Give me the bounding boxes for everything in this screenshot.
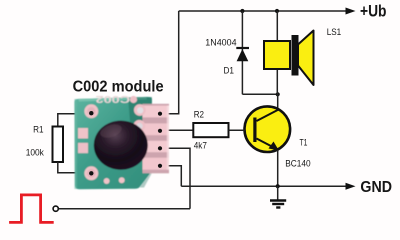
svg-text:R1: R1 [33,124,43,134]
small square pad 2 [78,143,88,153]
svg-text:1N4004: 1N4004 [205,38,236,48]
mounting hole pad bottom-left [84,166,98,180]
node dot speaker top on rail [275,9,279,13]
small round pads bottom [104,178,110,184]
solder dot left top [89,111,93,115]
module board [74,97,152,189]
dark area near vias top-right [128,97,152,135]
wire diode branch vertical [241,11,243,94]
svg-text:100k: 100k [26,148,45,158]
chip blob [94,121,148,170]
resistor R1 wire bottom [58,162,91,173]
small square pad 1 [78,128,88,139]
solder dot pad4 [158,164,162,168]
wire GND rail [181,185,346,187]
resistor R2 [193,123,228,137]
via pad top edge [130,96,137,103]
svg-text:LS1: LS1 [327,27,342,37]
solder dot pad2 [158,129,162,133]
transistor T1 [244,106,290,152]
wire riser from module pad1 to +Ub rail [160,11,179,114]
GND arrowhead [346,183,356,190]
wire module pad4 to GND rail [160,166,181,186]
svg-text:R2: R2 [194,110,204,120]
svg-text:GND: GND [360,179,392,196]
svg-text:D1: D1 [224,66,235,76]
pin pad strip fingers (right edge) [143,104,170,174]
svg-text:+Ub: +Ub [360,2,387,20]
wire diode bottom horizontal to collector node [242,93,277,95]
wire R2 to base [229,129,245,131]
resistor R1 wire top [58,114,91,127]
svg-text:4k7: 4k7 [194,140,207,150]
input terminal open circle [53,206,58,211]
solder dot pad1 [158,112,162,116]
pulse waveform (input signal) [9,195,54,223]
node dot collector junction [276,92,280,96]
diode D1 symbol (cathode bar + triangle) [236,48,249,61]
node dot emitter on GND rail [276,184,280,188]
wire module pad2 to R2 [160,129,193,131]
wire top +Ub rail [179,10,347,12]
wire emitter vertical to GND rail [277,150,279,186]
solder dot pad3 [158,146,162,150]
resistor R1 [53,127,64,163]
mounting hole pad top-left [84,104,98,118]
wire trigger input horizontal [58,208,190,210]
wire speaker branch vertical (rail to collector node) [276,11,278,94]
node dot diode top on rail [240,9,244,13]
wire collector vertical into transistor [277,94,279,110]
C002 module photo (PCB) [74,93,169,189]
+Ub arrowhead [346,8,356,15]
solder dot left bottom [89,171,93,175]
svg-text:C002 module: C002 module [73,78,164,95]
svg-text:BC140: BC140 [285,158,310,168]
speaker LS1 [264,31,314,86]
via pads top-right [133,104,145,132]
svg-text:T1: T1 [300,138,308,148]
bottom chamfer shading [140,168,152,188]
wire module pad3 down to trigger input [160,148,190,208]
ground symbol [270,186,286,207]
